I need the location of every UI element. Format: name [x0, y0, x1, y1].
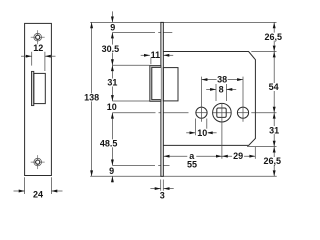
dimension 3 — [150, 180, 173, 201]
spindle square — [217, 108, 226, 117]
left fixing hole — [196, 107, 207, 118]
svg-text:10: 10 — [197, 128, 207, 138]
latch slot strip (left view) — [32, 71, 34, 105]
bolt bottom extension — [112, 100, 149, 102]
lock case outline — [163, 52, 255, 146]
svg-text:55: 55 — [187, 159, 197, 169]
svg-text:31: 31 — [269, 125, 279, 135]
label 9 (top) — [108, 23, 118, 33]
label 138 — [84, 93, 100, 103]
svg-text:9: 9 — [109, 166, 114, 176]
right dimension chain line — [273, 22, 275, 176]
svg-text:3: 3 — [160, 191, 165, 201]
svg-text:8: 8 — [219, 85, 224, 95]
dimension 38 — [202, 75, 244, 122]
svg-text:29: 29 — [233, 151, 243, 161]
label 10 (vertical) — [106, 102, 117, 112]
latch slot opening (left view) — [34, 73, 46, 103]
latchbolt head — [150, 66, 161, 102]
latchbolt housing — [163, 68, 178, 101]
svg-text:11: 11 — [151, 50, 161, 60]
dimension 138 line — [91, 22, 93, 176]
bottom screw centre mark — [112, 164, 155, 166]
svg-text:12: 12 — [33, 43, 43, 53]
dimension a / 55 — [164, 103, 222, 169]
dimension 8 — [206, 84, 236, 101]
arrowheads dimension 9 top — [111, 17, 114, 39]
label 31 (left) — [107, 78, 118, 88]
svg-text:24: 24 — [33, 190, 43, 200]
bolt top extension — [112, 64, 149, 66]
label 9 (bottom) — [107, 166, 117, 176]
bottom extension line (overall) — [90, 175, 277, 177]
dimension 10 (hole dia) — [186, 119, 216, 138]
top extension line (overall) — [90, 21, 276, 23]
arrowheads dimension 10 / 48.5 / 9 bottom — [111, 113, 114, 183]
dimension 12 — [21, 43, 56, 71]
svg-text:26,5: 26,5 — [265, 32, 283, 42]
label 26,5 (bottom) — [263, 156, 282, 166]
arrowheads dimension 30.5 / 31 — [111, 59, 114, 101]
bottom screw hole — [31, 155, 45, 169]
svg-text:10: 10 — [107, 102, 117, 112]
svg-text:30.5: 30.5 — [102, 44, 120, 54]
dimension 24 — [14, 177, 63, 199]
dimension 29 — [222, 147, 255, 161]
label 26,5 (top) — [264, 32, 283, 42]
right fixing hole — [237, 107, 248, 118]
svg-text:38: 38 — [217, 75, 227, 85]
top screw hole — [31, 30, 45, 44]
right extension: case top — [251, 51, 276, 53]
svg-text:54: 54 — [269, 82, 279, 92]
svg-text:26,5: 26,5 — [264, 156, 282, 166]
svg-text:48.5: 48.5 — [100, 139, 118, 149]
label 31 (right) — [269, 125, 280, 135]
follower circle — [213, 103, 232, 122]
faceplate edge strip (side view) — [161, 22, 163, 176]
left dimension chain line — [111, 11, 113, 22]
svg-text:138: 138 — [84, 93, 99, 103]
top screw centre mark — [112, 32, 155, 34]
centre line through follower — [112, 112, 155, 114]
138 arrowheads — [90, 22, 93, 28]
right chain arrowheads — [273, 22, 276, 28]
latchbolt head inner bevel — [152, 67, 161, 99]
svg-text:9: 9 — [110, 23, 115, 33]
svg-text:31: 31 — [107, 78, 117, 88]
label 54 — [268, 82, 279, 92]
right extension: case bottom — [247, 146, 277, 148]
label 30.5 — [101, 44, 120, 54]
strike plate outline (left view) — [25, 23, 52, 175]
label 48.5 — [99, 139, 119, 149]
dimension 11 — [141, 50, 174, 65]
